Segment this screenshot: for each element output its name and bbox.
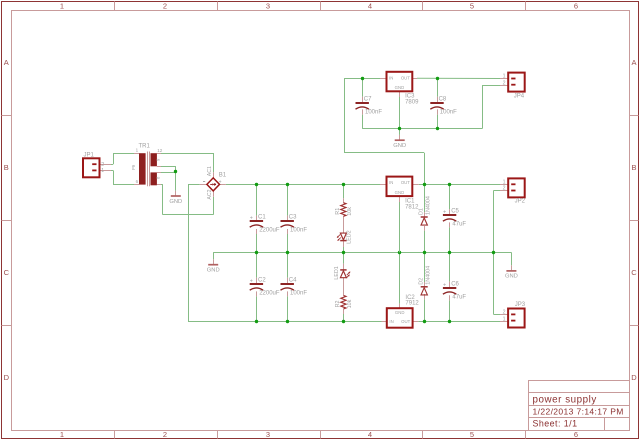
svg-text:10k: 10k bbox=[347, 207, 353, 216]
svg-text:+: + bbox=[443, 282, 446, 288]
svg-text:+: + bbox=[250, 278, 253, 284]
svg-text:1/22/2013 7:14:17 PM: 1/22/2013 7:14:17 PM bbox=[533, 407, 624, 417]
svg-text:LED2: LED2 bbox=[346, 230, 352, 244]
svg-text:AC2: AC2 bbox=[207, 189, 213, 199]
svg-text:2: 2 bbox=[503, 310, 506, 316]
svg-text:D2: D2 bbox=[419, 278, 425, 285]
svg-text:C: C bbox=[631, 268, 637, 277]
svg-text:5: 5 bbox=[470, 2, 474, 11]
svg-text:7912: 7912 bbox=[405, 301, 419, 307]
svg-text:2200uF: 2200uF bbox=[259, 227, 280, 233]
svg-text:R2: R2 bbox=[335, 300, 341, 307]
svg-text:100nF: 100nF bbox=[440, 109, 457, 115]
svg-text:6: 6 bbox=[136, 179, 139, 184]
svg-text:C6: C6 bbox=[451, 282, 459, 288]
svg-text:1: 1 bbox=[60, 2, 64, 11]
svg-text:IN: IN bbox=[389, 180, 393, 185]
svg-text:GND: GND bbox=[169, 199, 182, 205]
svg-text:R1: R1 bbox=[335, 208, 341, 215]
svg-text:power supply: power supply bbox=[533, 394, 597, 405]
svg-text:OUT: OUT bbox=[401, 319, 410, 324]
svg-text:2: 2 bbox=[163, 2, 167, 11]
svg-text:4: 4 bbox=[368, 2, 372, 11]
svg-text:GND: GND bbox=[395, 190, 405, 195]
svg-text:7812: 7812 bbox=[405, 204, 419, 210]
svg-text:1N4004: 1N4004 bbox=[425, 196, 431, 215]
svg-text:6: 6 bbox=[574, 2, 578, 11]
svg-text:1: 1 bbox=[503, 316, 506, 322]
svg-text:C2: C2 bbox=[258, 278, 266, 284]
svg-text:P9: P9 bbox=[131, 164, 136, 170]
svg-text:+: + bbox=[219, 179, 222, 185]
svg-text:C1: C1 bbox=[258, 215, 266, 221]
svg-text:B: B bbox=[631, 163, 636, 172]
svg-text:1: 1 bbox=[60, 430, 64, 439]
svg-text:GND: GND bbox=[395, 310, 405, 315]
svg-text:100nF: 100nF bbox=[290, 227, 307, 233]
svg-text:2: 2 bbox=[503, 185, 506, 191]
svg-text:AC1: AC1 bbox=[207, 166, 213, 176]
svg-text:100nF: 100nF bbox=[365, 109, 382, 115]
svg-text:47uF: 47uF bbox=[452, 294, 466, 300]
svg-text:D: D bbox=[631, 373, 637, 382]
svg-text:GND: GND bbox=[395, 85, 405, 90]
svg-text:+: + bbox=[443, 209, 446, 215]
svg-text:7809: 7809 bbox=[405, 100, 419, 106]
svg-text:C7: C7 bbox=[364, 97, 372, 103]
svg-text:JP4: JP4 bbox=[514, 93, 525, 99]
svg-text:C3: C3 bbox=[289, 215, 297, 221]
svg-text:Sheet: 1/1: Sheet: 1/1 bbox=[533, 419, 578, 429]
svg-text:OUT: OUT bbox=[401, 180, 410, 185]
svg-text:3: 3 bbox=[266, 430, 270, 439]
svg-text:A: A bbox=[631, 58, 636, 67]
svg-text:12: 12 bbox=[157, 148, 163, 153]
svg-text:JP2: JP2 bbox=[515, 199, 526, 205]
svg-text:2: 2 bbox=[503, 80, 506, 86]
svg-text:LED1: LED1 bbox=[334, 266, 340, 280]
svg-text:JP3: JP3 bbox=[515, 302, 526, 308]
svg-text:1N4004: 1N4004 bbox=[425, 266, 431, 285]
svg-text:3: 3 bbox=[266, 2, 270, 11]
svg-text:D1: D1 bbox=[419, 208, 425, 215]
svg-text:47uF: 47uF bbox=[452, 221, 466, 227]
svg-text:4: 4 bbox=[368, 430, 372, 439]
svg-text:TR1: TR1 bbox=[139, 144, 151, 150]
svg-text:GND: GND bbox=[505, 274, 518, 280]
svg-text:100nF: 100nF bbox=[290, 290, 307, 296]
svg-text:B1: B1 bbox=[219, 172, 227, 178]
svg-text:GND: GND bbox=[393, 143, 406, 149]
svg-text:2: 2 bbox=[163, 430, 167, 439]
svg-text:C: C bbox=[4, 268, 10, 277]
svg-text:1: 1 bbox=[101, 168, 104, 174]
svg-text:1: 1 bbox=[503, 74, 506, 80]
svg-text:A: A bbox=[4, 58, 9, 67]
svg-text:IN: IN bbox=[389, 319, 393, 324]
svg-text:10k: 10k bbox=[347, 299, 353, 308]
svg-text:2200uF: 2200uF bbox=[259, 290, 280, 296]
svg-text:6: 6 bbox=[574, 430, 578, 439]
svg-text:D: D bbox=[4, 373, 10, 382]
svg-text:5: 5 bbox=[470, 430, 474, 439]
svg-text:+: + bbox=[250, 215, 253, 221]
svg-text:OUT: OUT bbox=[401, 75, 410, 80]
svg-text:B: B bbox=[4, 163, 9, 172]
svg-text:C5: C5 bbox=[451, 209, 459, 215]
svg-text:IN: IN bbox=[389, 75, 393, 80]
svg-text:JP1: JP1 bbox=[84, 153, 95, 159]
svg-text:C4: C4 bbox=[289, 278, 297, 284]
svg-text:C8: C8 bbox=[439, 97, 447, 103]
svg-text:GND: GND bbox=[207, 267, 220, 273]
